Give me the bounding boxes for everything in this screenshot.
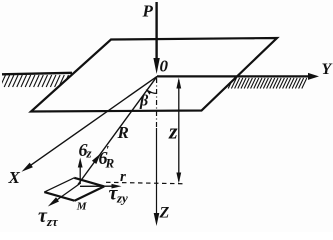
ground hatch left (0, 75, 73, 87)
axis Z centerline (dash-dot) (156, 78, 158, 128)
svg-text:z: z (86, 146, 93, 161)
svg-text:r: r (120, 169, 126, 185)
element plate at M (44, 178, 74, 192)
svg-text:R: R (117, 123, 129, 142)
svg-text:zy: zy (116, 191, 128, 206)
svg-text:′: ′ (106, 143, 109, 157)
stress tau_zx arrow (54, 184, 80, 203)
svg-text:M: M (76, 201, 88, 213)
force P arrow (155, 2, 157, 60)
svg-text:0: 0 (160, 57, 169, 76)
dashed radial distance r line (106, 182, 186, 184)
stress sigma_z arrow (79, 166, 81, 184)
axis X (26, 76, 157, 168)
dimension z line (178, 80, 180, 181)
axis Y (ground line right) (157, 75, 309, 77)
axis Z (156, 128, 158, 214)
stress sigma_R arrowhead (92, 154, 101, 165)
svg-text:β: β (139, 93, 149, 110)
ground hatch right (225, 78, 307, 89)
angle beta arc (147, 90, 157, 93)
svg-text:zτ: zτ (46, 214, 59, 229)
svg-text:P: P (142, 2, 154, 21)
svg-text:Y: Y (322, 61, 333, 78)
stress tau_zy arrow (80, 185, 113, 187)
svg-text:R: R (105, 156, 115, 171)
line R (78, 76, 157, 184)
svg-text:X: X (8, 168, 21, 187)
svg-text:z: z (168, 119, 178, 144)
loaded area plate (surface parallelogram) (31, 38, 277, 112)
svg-text:Z: Z (159, 205, 170, 222)
ground surface line left (2, 73, 72, 75)
